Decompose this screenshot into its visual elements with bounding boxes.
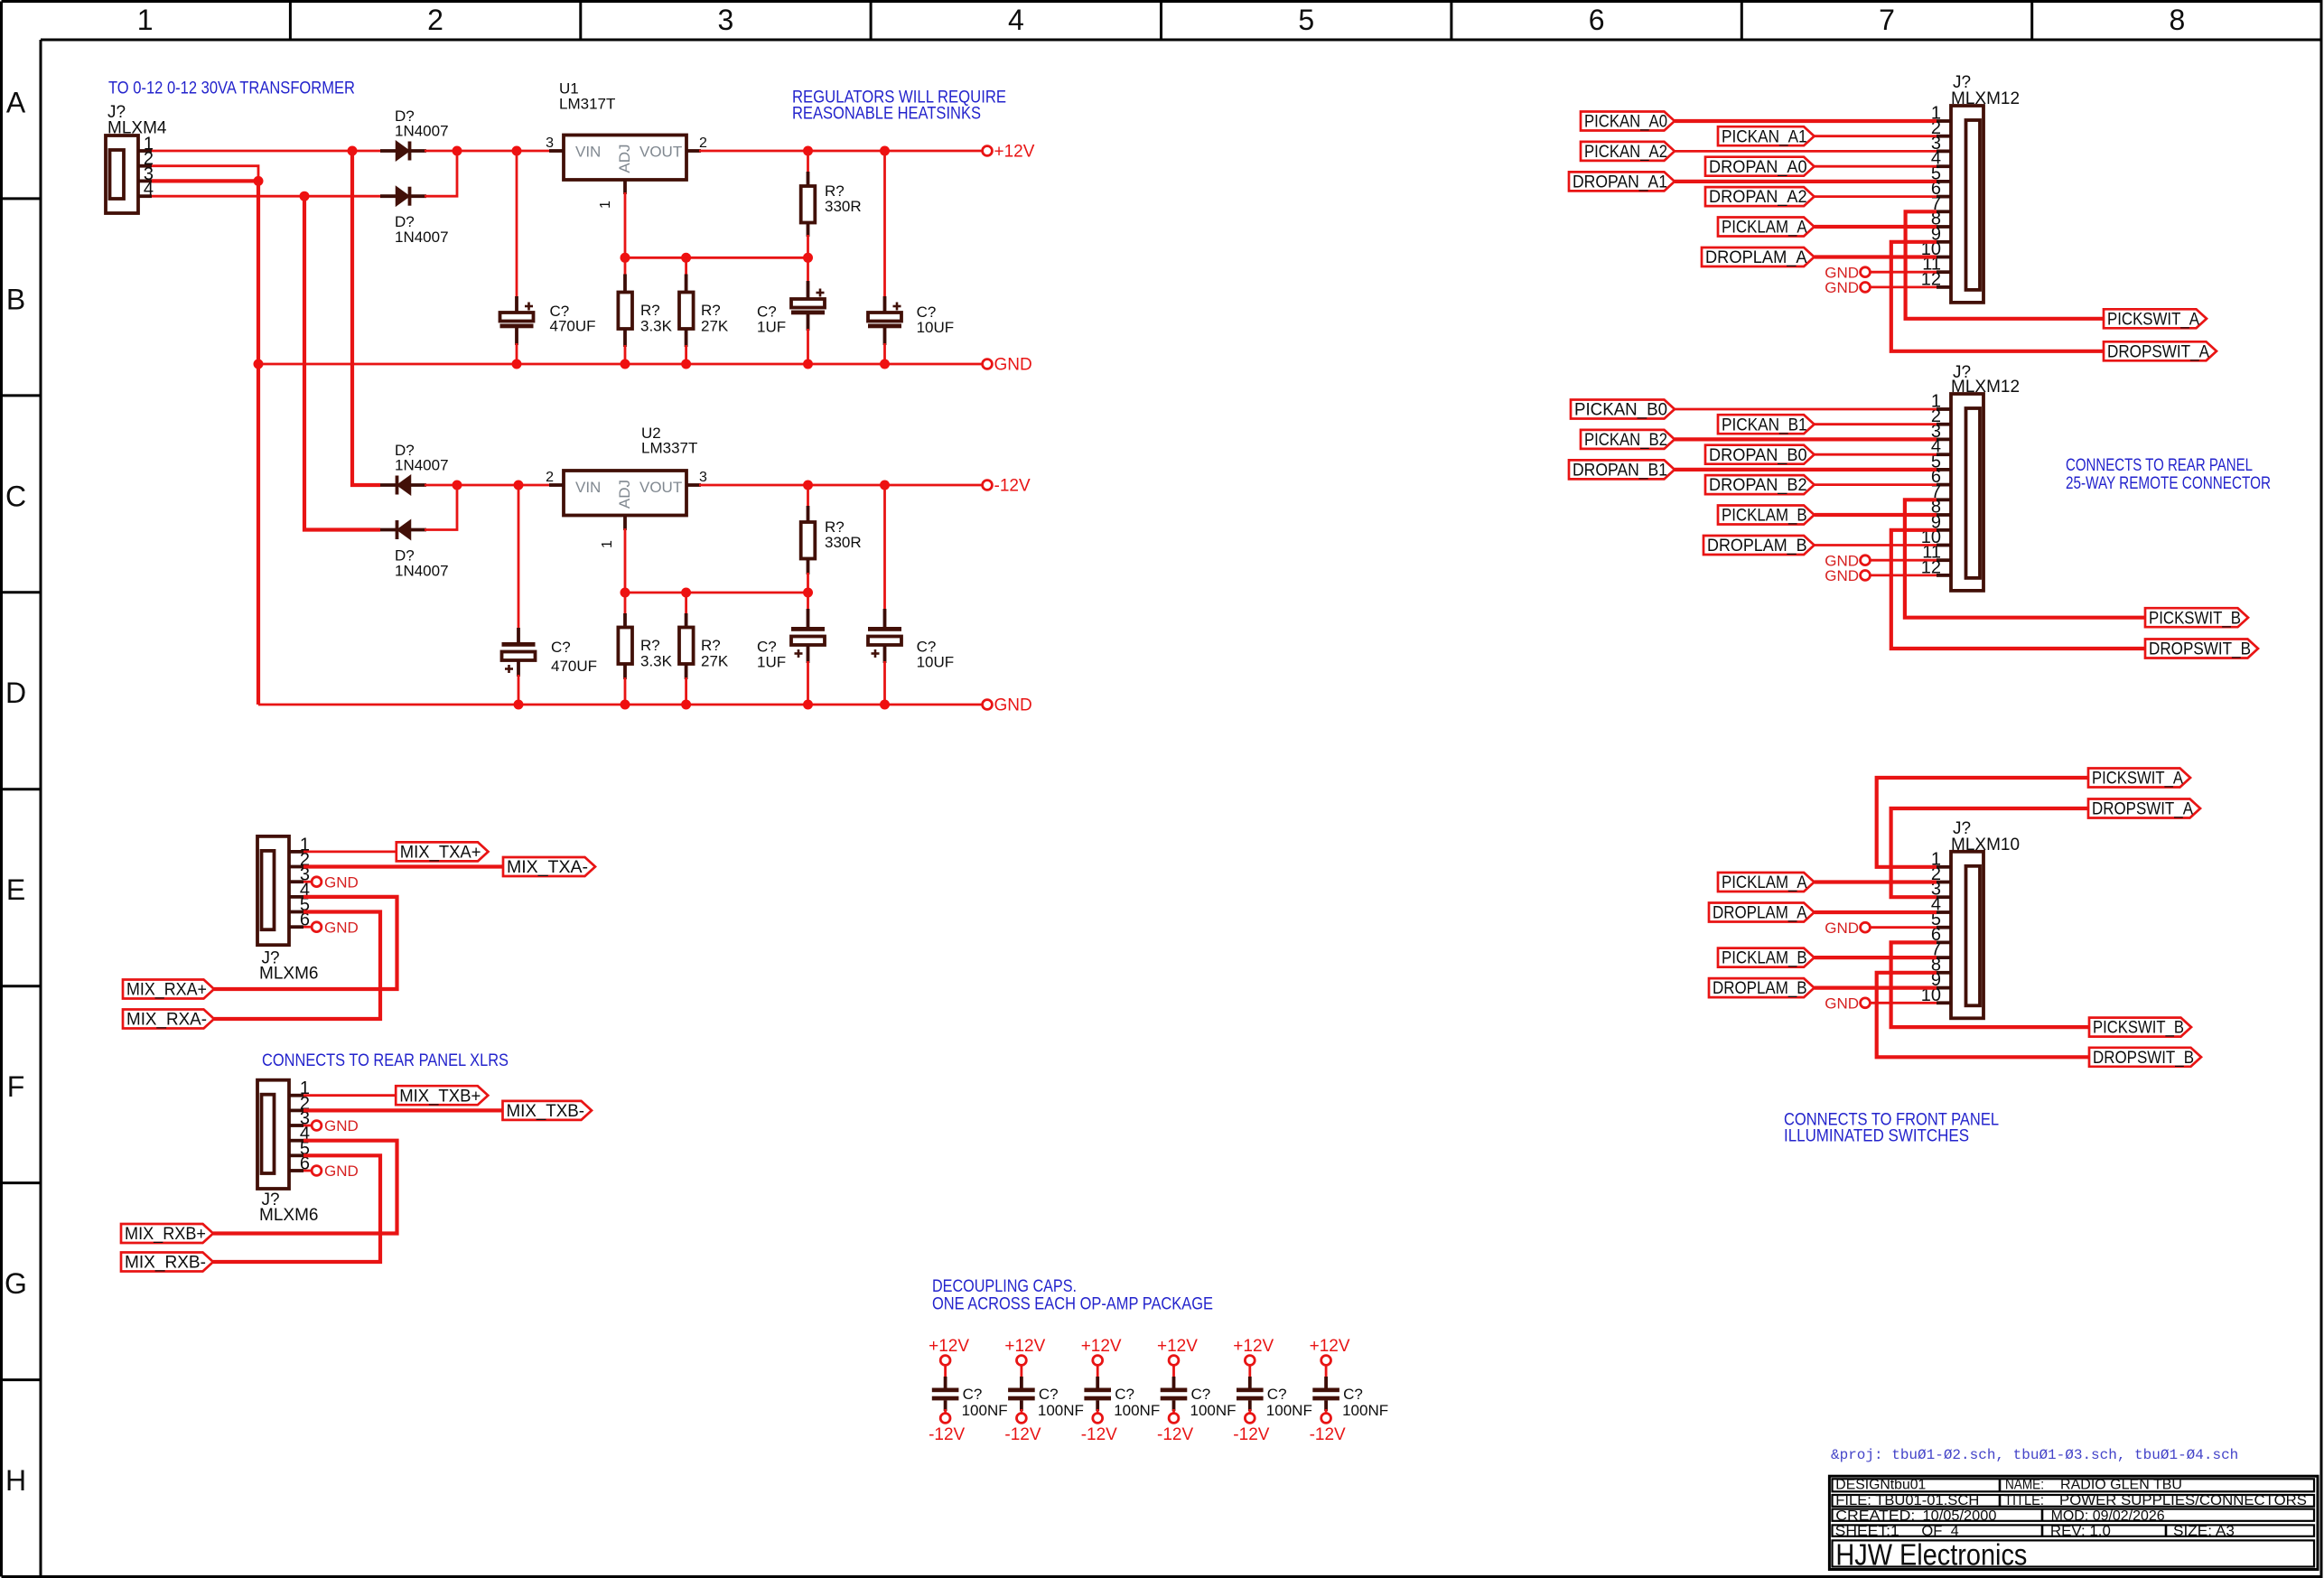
wire D2 cathode up to VIN node (425, 151, 457, 196)
svg-text:27K: 27K (701, 318, 729, 335)
wire (1021, 1409, 1023, 1414)
net label DROPLAM_A (1702, 247, 1815, 267)
capacitor None None (791, 289, 825, 315)
svg-text:3.3K: 3.3K (640, 318, 673, 335)
capacitor C? 470UF (502, 639, 598, 675)
wire GND bus lower (258, 704, 983, 706)
svg-text:DROPAN_A0: DROPAN_A0 (1709, 158, 1807, 177)
wire pin10 (1815, 544, 1937, 546)
wire pin3 (1675, 437, 1937, 441)
regulator U2 LM337T (546, 425, 707, 548)
wire pin11 gnd (1871, 271, 1937, 274)
capacitor C? 10UF (868, 627, 954, 671)
svg-text:DROPLAM_A: DROPLAM_A (1713, 904, 1807, 923)
junction (681, 253, 691, 263)
connector J? MLXM12 (1921, 363, 2020, 591)
GND reference (312, 919, 359, 936)
power terminal +12V (1004, 1337, 1045, 1365)
wire pin4 (1815, 453, 1937, 456)
svg-text:3: 3 (546, 135, 554, 151)
svg-text:-12V: -12V (929, 1425, 965, 1444)
net label PICKAN_B0 (1571, 400, 1675, 420)
svg-text:GND: GND (994, 356, 1032, 375)
power terminal +12V (1310, 1337, 1350, 1365)
svg-text:25-WAY REMOTE CONNECTOR: 25-WAY REMOTE CONNECTOR (2066, 473, 2271, 493)
wire pin2 to MIX_TXB- (303, 1108, 503, 1112)
svg-text:F: F (7, 1070, 25, 1103)
wire pin1 to diode D1 (152, 150, 382, 153)
title block (1829, 1476, 2318, 1569)
wire (944, 1409, 947, 1414)
power terminal -12V (1081, 1414, 1117, 1444)
wire (1325, 1409, 1328, 1414)
net label DROPSWIT_A (2088, 799, 2200, 819)
svg-text:+12V: +12V (1310, 1337, 1350, 1356)
svg-text:2: 2 (546, 470, 554, 485)
svg-text:GND: GND (1825, 567, 1859, 584)
capacitor C? 470UF smoothing (516, 151, 518, 298)
svg-text:-12V: -12V (994, 477, 1031, 496)
wire pin6 (1815, 195, 1937, 198)
junction (681, 588, 691, 598)
wire (1097, 1366, 1099, 1379)
svg-text:1N4007: 1N4007 (395, 123, 449, 140)
svg-text:VOUT: VOUT (639, 479, 682, 496)
wire pin2 (152, 166, 258, 182)
wire pin2 (1815, 135, 1937, 137)
wire pin4 to MIX_RXA+ (214, 897, 397, 989)
wire (1325, 1366, 1328, 1379)
svg-text:DROPSWIT_A: DROPSWIT_A (2107, 342, 2209, 361)
svg-text:MLXM12: MLXM12 (1951, 378, 2020, 397)
comment text front panel (1784, 1110, 1999, 1146)
svg-text:GND: GND (994, 696, 1032, 715)
wire pin6 to PICKSWIT_B (1891, 942, 2089, 1027)
resistor R? 27K negative (685, 593, 687, 615)
wire pin1 to MIX_TXA+ (303, 851, 397, 854)
svg-text:DROPAN_A1: DROPAN_A1 (1573, 173, 1667, 192)
svg-text:+12V: +12V (1004, 1337, 1045, 1356)
svg-text:1: 1 (137, 4, 154, 36)
connector J? MLXM4 (106, 103, 167, 213)
svg-text:C?: C? (551, 639, 571, 656)
wire VOUT to +12V (699, 150, 983, 153)
svg-text:C?: C? (1267, 1386, 1287, 1403)
svg-text:+12V: +12V (1233, 1337, 1274, 1356)
net label DROPLAM_B (1703, 536, 1815, 556)
svg-text:FILE: TBU01-01.SCH: FILE: TBU01-01.SCH (1835, 1493, 1979, 1508)
power terminal -12V (1310, 1414, 1346, 1444)
svg-text:100NF: 100NF (962, 1402, 1008, 1419)
svg-text:TITLE:: TITLE: (2004, 1493, 2044, 1508)
svg-text:SIZE: A3: SIZE: A3 (2173, 1524, 2235, 1539)
svg-text:MLXM12: MLXM12 (1951, 89, 2020, 108)
svg-text:MLXM6: MLXM6 (259, 965, 318, 984)
net label DROPLAM_B (1709, 978, 1815, 998)
wire DROPLAM_B to pin9 (1815, 985, 1937, 989)
junction (453, 481, 462, 490)
GND reference (312, 1162, 359, 1180)
svg-text:330R: 330R (825, 198, 862, 215)
junction (512, 146, 522, 156)
net label PICKAN_A1 (1718, 126, 1815, 146)
svg-text:DROPSWIT_B: DROPSWIT_B (2149, 640, 2251, 659)
svg-text:+12V: +12V (929, 1337, 969, 1356)
wire VOUT2 to -12V (699, 484, 983, 487)
svg-text:6: 6 (1589, 4, 1605, 36)
net label DROPAN_A2 (1705, 187, 1815, 207)
svg-text:100NF: 100NF (1266, 1402, 1312, 1419)
svg-text:MLXM6: MLXM6 (259, 1206, 318, 1225)
net label MIX_TXB+ (396, 1086, 488, 1106)
svg-text:REV: 1.0: REV: 1.0 (2050, 1524, 2111, 1539)
svg-text:R?: R? (701, 302, 721, 319)
svg-text:SHEET:1: SHEET:1 (1835, 1524, 1899, 1539)
svg-text:GND: GND (324, 1162, 359, 1180)
svg-text:CONNECTS TO REAR PANEL: CONNECTS TO REAR PANEL (2066, 455, 2253, 475)
wire pin8 to DROPSWIT_B (1877, 973, 2089, 1058)
junction (453, 146, 462, 156)
resistor R? 3.3K (618, 628, 672, 670)
svg-text:C?: C? (1115, 1386, 1134, 1403)
wire pin6 gnd (303, 926, 313, 929)
svg-text:4: 4 (1951, 1524, 1959, 1539)
net label MIX_TXB- (503, 1101, 593, 1121)
svg-text:1N4007: 1N4007 (395, 563, 449, 580)
svg-text:MLXM10: MLXM10 (1951, 836, 2020, 854)
wire PICKSWIT_A to pin1 (1877, 778, 2088, 867)
connector J? MLXM6 (257, 1078, 318, 1225)
wire pin10 (1815, 255, 1937, 258)
wire ADJ2 row (625, 592, 808, 594)
connector J? MLXM6 (257, 835, 318, 983)
svg-text:DROPAN_B0: DROPAN_B0 (1709, 446, 1807, 465)
comment text regulators (792, 88, 1006, 124)
GND reference (1825, 995, 1870, 1013)
svg-text:PICKAN_A2: PICKAN_A2 (1584, 143, 1667, 162)
svg-text:PICKLAM_B: PICKLAM_B (1722, 949, 1807, 968)
svg-text:D: D (5, 677, 26, 709)
GND reference (1825, 552, 1870, 569)
svg-text:4: 4 (1008, 4, 1024, 36)
svg-text:7: 7 (1879, 4, 1895, 36)
resistor R? 27K (685, 257, 687, 275)
net label PICKAN_A2 (1581, 142, 1675, 162)
capacitor C? 10UF negative (883, 485, 886, 611)
resistor R? 330R (801, 182, 862, 223)
svg-text:RADIO GLEN TBU: RADIO GLEN TBU (2060, 1478, 2182, 1493)
junction (621, 700, 630, 710)
wire PICKLAM_B to pin7 (1815, 956, 1937, 959)
svg-text:VIN: VIN (575, 144, 601, 161)
capacitor C? 470UF (500, 303, 596, 335)
wire pin9 to DROPSWIT_A (1891, 242, 2104, 351)
svg-text:DROPSWIT_B: DROPSWIT_B (2093, 1049, 2194, 1068)
svg-text:B: B (6, 283, 25, 315)
svg-text:C?: C? (1191, 1386, 1211, 1403)
svg-text:MIX_RXA-: MIX_RXA- (126, 1011, 207, 1030)
net label DROPLAM_A (1709, 903, 1815, 923)
svg-text:C?: C? (1039, 1386, 1059, 1403)
svg-text:C?: C? (963, 1386, 983, 1403)
wire pin3 gnd (303, 1125, 313, 1127)
wire (1172, 1409, 1175, 1414)
svg-text:1N4007: 1N4007 (395, 229, 449, 246)
comment text decoupling (932, 1276, 1213, 1314)
svg-text:3: 3 (718, 4, 734, 36)
junction (803, 253, 813, 263)
wire pin3 centre-tap (152, 179, 258, 182)
resistor R? 330R negative (807, 485, 809, 508)
GND reference (312, 1117, 359, 1134)
svg-text:DROPAN_A2: DROPAN_A2 (1709, 188, 1807, 207)
svg-text:-12V: -12V (1157, 1425, 1193, 1444)
wire D1 cathode to VIN (425, 150, 551, 153)
wire pin12 gnd (1871, 285, 1937, 288)
wire DROPLAM_A to pin4 (1815, 910, 1937, 914)
svg-text:POWER SUPPLIES/CONNECTORS: POWER SUPPLIES/CONNECTORS (2059, 1493, 2307, 1508)
svg-text:27K: 27K (701, 653, 729, 670)
svg-text:1: 1 (598, 201, 613, 209)
svg-text:5: 5 (1298, 4, 1314, 36)
svg-text:A: A (6, 86, 26, 118)
svg-text:10UF: 10UF (917, 654, 955, 671)
svg-text:TO 0-12 0-12 30VA TRANSFORMER: TO 0-12 0-12 30VA TRANSFORMER (108, 79, 355, 98)
power terminal -12V (983, 477, 1031, 496)
junction (803, 481, 813, 490)
svg-text:ONE ACROSS EACH OP-AMP PACKAGE: ONE ACROSS EACH OP-AMP PACKAGE (932, 1294, 1213, 1314)
wire pin5 to MIX_RXB- (213, 1155, 380, 1262)
svg-text:MLXM4: MLXM4 (107, 119, 167, 138)
svg-text:3.3K: 3.3K (640, 653, 673, 670)
svg-text:ILLUMINATED SWITCHES: ILLUMINATED SWITCHES (1784, 1126, 1969, 1146)
svg-text:-12V: -12V (1233, 1425, 1269, 1444)
net label MIX_RXA- (123, 1010, 214, 1030)
capacitor C? 100NF (1312, 1377, 1388, 1419)
junction (254, 176, 264, 186)
wire pin5 (1675, 180, 1937, 183)
wire pin5 (1675, 468, 1937, 472)
net label DROPSWIT_A (2104, 341, 2217, 361)
svg-text:PICKAN_B0: PICKAN_B0 (1574, 401, 1667, 420)
capacitor C? 1UF negative (807, 593, 809, 611)
capacitor C? 100NF (932, 1377, 1008, 1419)
svg-text:NAME:: NAME: (2005, 1478, 2044, 1493)
svg-text:MIX_TXB-: MIX_TXB- (507, 1102, 585, 1121)
svg-text:MIX_RXA+: MIX_RXA+ (126, 981, 207, 1000)
svg-text:DROPLAM_A: DROPLAM_A (1705, 248, 1807, 267)
wire pin8 (1815, 513, 1937, 517)
junction (880, 146, 890, 156)
wire pin12 gnd (1871, 574, 1937, 577)
svg-text:VOUT: VOUT (639, 144, 682, 161)
wire pin4 (1815, 165, 1937, 168)
wire DROPSWIT_A to pin3 (1891, 808, 2088, 897)
svg-text:GND: GND (1825, 279, 1859, 296)
svg-text:MIX_TXB+: MIX_TXB+ (399, 1087, 481, 1106)
junction (803, 146, 813, 156)
connector J? MLXM10 (1921, 819, 2020, 1018)
junction (803, 359, 813, 369)
junction (681, 700, 691, 710)
power terminal +12V (1081, 1337, 1122, 1365)
junction (880, 700, 890, 710)
svg-text:MIX_RXB-: MIX_RXB- (125, 1254, 206, 1273)
svg-text:2: 2 (699, 135, 707, 151)
svg-text:LM337T: LM337T (641, 440, 697, 457)
svg-text:PICKAN_A1: PICKAN_A1 (1722, 127, 1807, 146)
svg-text:CONNECTS TO REAR PANEL XLRS: CONNECTS TO REAR PANEL XLRS (262, 1050, 509, 1070)
svg-text:HJW Electronics: HJW Electronics (1835, 1538, 2027, 1572)
net label DROPSWIT_B (2145, 640, 2258, 659)
svg-text:PICKAN_B2: PICKAN_B2 (1584, 431, 1667, 450)
svg-text:REASONABLE HEATSINKS: REASONABLE HEATSINKS (792, 104, 981, 124)
svg-text:E: E (6, 873, 25, 906)
net label PICKLAM_A (1718, 218, 1815, 238)
wire rectified vertical to lower bridge D3 (352, 151, 380, 485)
wire pin2 to MIX_TXA- (303, 864, 503, 868)
resistor R? 3.3K (624, 257, 627, 275)
capacitor C? 100NF (1237, 1377, 1312, 1419)
wire pin5 to MIX_RXA- (214, 912, 380, 1020)
wire pin3 gnd (303, 881, 313, 883)
junction (880, 481, 890, 490)
resistor R? 3.3K negative (624, 593, 627, 615)
svg-text:PICKAN_B1: PICKAN_B1 (1722, 416, 1807, 434)
svg-text:PICKLAM_A: PICKLAM_A (1722, 873, 1807, 892)
net label DROPSWIT_B (2089, 1048, 2201, 1068)
GND reference (1825, 264, 1870, 281)
svg-text:MIX_RXB+: MIX_RXB+ (125, 1225, 206, 1244)
wire (1248, 1366, 1251, 1379)
svg-text:MOD: 09/02/2026: MOD: 09/02/2026 (2051, 1508, 2165, 1524)
power terminal -12V (1157, 1414, 1193, 1444)
power terminal -12V (929, 1414, 965, 1444)
wire pin10 gnd (1871, 1002, 1937, 1004)
wire (1021, 1366, 1023, 1379)
svg-text:330R: 330R (825, 534, 862, 551)
svg-text:1UF: 1UF (757, 654, 786, 671)
power terminal -12V (1004, 1414, 1041, 1444)
net label PICKSWIT_B (2089, 1018, 2191, 1038)
junction (621, 253, 630, 263)
svg-text:PICKSWIT_B: PICKSWIT_B (2149, 609, 2241, 628)
wire pin2 (1815, 423, 1937, 425)
connector J? MLXM12 (1921, 73, 2020, 303)
svg-text:+12V: +12V (1157, 1337, 1198, 1356)
svg-text:DROPAN_B1: DROPAN_B1 (1573, 462, 1667, 481)
power terminal +12V (1157, 1337, 1198, 1365)
svg-text:1N4007: 1N4007 (395, 457, 449, 474)
net label MIX_RXB+ (121, 1224, 213, 1244)
svg-text:PICKLAM_A: PICKLAM_A (1722, 219, 1807, 238)
capacitor C? 10UF (883, 151, 886, 298)
power terminal +12V (1233, 1337, 1274, 1365)
wire pin6 (1815, 483, 1937, 486)
wire pin7 to PICKSWIT_B (1905, 500, 2145, 617)
resistor R? 330R (801, 518, 862, 559)
svg-text:1UF: 1UF (757, 319, 786, 336)
capacitor C? 100NF (1084, 1377, 1160, 1419)
svg-text:3: 3 (699, 470, 707, 485)
svg-text:GND: GND (324, 1117, 359, 1134)
power terminal GND (983, 696, 1032, 715)
diode D? 1N4007 (380, 520, 449, 580)
wire D3 cathode to VIN2 (425, 484, 551, 487)
svg-text:-12V: -12V (1081, 1425, 1117, 1444)
wire pin4 to diode D2 (152, 195, 382, 198)
junction (348, 146, 358, 156)
power terminal GND (983, 356, 1032, 375)
capacitor C? 100NF (1161, 1377, 1237, 1419)
svg-text:PICKLAM_B: PICKLAM_B (1722, 507, 1807, 526)
wire ADJ down (624, 192, 627, 257)
svg-text:R?: R? (640, 302, 660, 319)
junction (880, 359, 890, 369)
svg-text:PICKSWIT_B: PICKSWIT_B (2093, 1019, 2184, 1038)
net label MIX_TXA+ (397, 842, 489, 862)
net label DROPAN_A0 (1705, 157, 1815, 177)
net label PICKLAM_B (1718, 506, 1815, 526)
svg-text:R?: R? (701, 637, 721, 654)
svg-text:PICKAN_A0: PICKAN_A0 (1584, 113, 1667, 132)
wire pin7 to PICKSWIT_A (1906, 211, 2104, 318)
wire pin1 (1675, 408, 1937, 411)
svg-text:DROPLAM_B: DROPLAM_B (1713, 979, 1807, 998)
svg-text:GND: GND (1825, 920, 1859, 937)
capacitor C? 470UF smoothing negative (518, 485, 520, 630)
regulator U1 LM317T (546, 80, 707, 210)
diode D? 1N4007 (380, 107, 449, 161)
svg-text:10/05/2000: 10/05/2000 (1923, 1508, 1997, 1524)
svg-text:R?: R? (640, 637, 660, 654)
svg-text:DROPAN_B2: DROPAN_B2 (1709, 476, 1807, 495)
junction (514, 700, 524, 710)
wire pin5 gnd (1871, 926, 1937, 929)
svg-text:C: C (5, 480, 26, 512)
wire pin9 to DROPSWIT_B (1891, 530, 2145, 649)
GND reference (1825, 920, 1870, 937)
capacitor C? 1UF (807, 257, 809, 283)
wire (944, 1366, 947, 1379)
net label PICKAN_B2 (1581, 430, 1675, 450)
resistor R? 330R top lead (807, 151, 809, 173)
wire (1097, 1409, 1099, 1414)
wire (1172, 1366, 1175, 1379)
svg-text:&proj: tbuØ1-Ø2.sch, tbuØ1-Ø3.: &proj: tbuØ1-Ø2.sch, tbuØ1-Ø3.sch, tbuØ1… (1831, 1447, 2238, 1463)
svg-text:VIN: VIN (575, 479, 601, 496)
wire PICKLAM_A to pin2 (1815, 880, 1937, 883)
svg-text:8: 8 (2169, 4, 2185, 36)
wire centre-tap down to lower ground (257, 181, 260, 705)
svg-text:MIX_TXA-: MIX_TXA- (507, 858, 588, 877)
net label DROPAN_B2 (1705, 475, 1815, 495)
net label PICKAN_A0 (1581, 112, 1675, 132)
wire (1248, 1409, 1251, 1414)
net label MIX_TXA- (503, 857, 595, 877)
svg-text:2: 2 (427, 4, 443, 36)
svg-text:H: H (5, 1464, 26, 1497)
wire pin3 (1675, 150, 1937, 153)
svg-text:GND: GND (1825, 995, 1859, 1013)
svg-text:100NF: 100NF (1038, 1402, 1084, 1419)
capacitor None None (791, 627, 825, 658)
svg-text:OF: OF (1921, 1524, 1942, 1539)
svg-text:GND: GND (324, 873, 359, 891)
junction (621, 359, 630, 369)
svg-text:DROPSWIT_A: DROPSWIT_A (2092, 800, 2193, 819)
junction (514, 481, 524, 490)
